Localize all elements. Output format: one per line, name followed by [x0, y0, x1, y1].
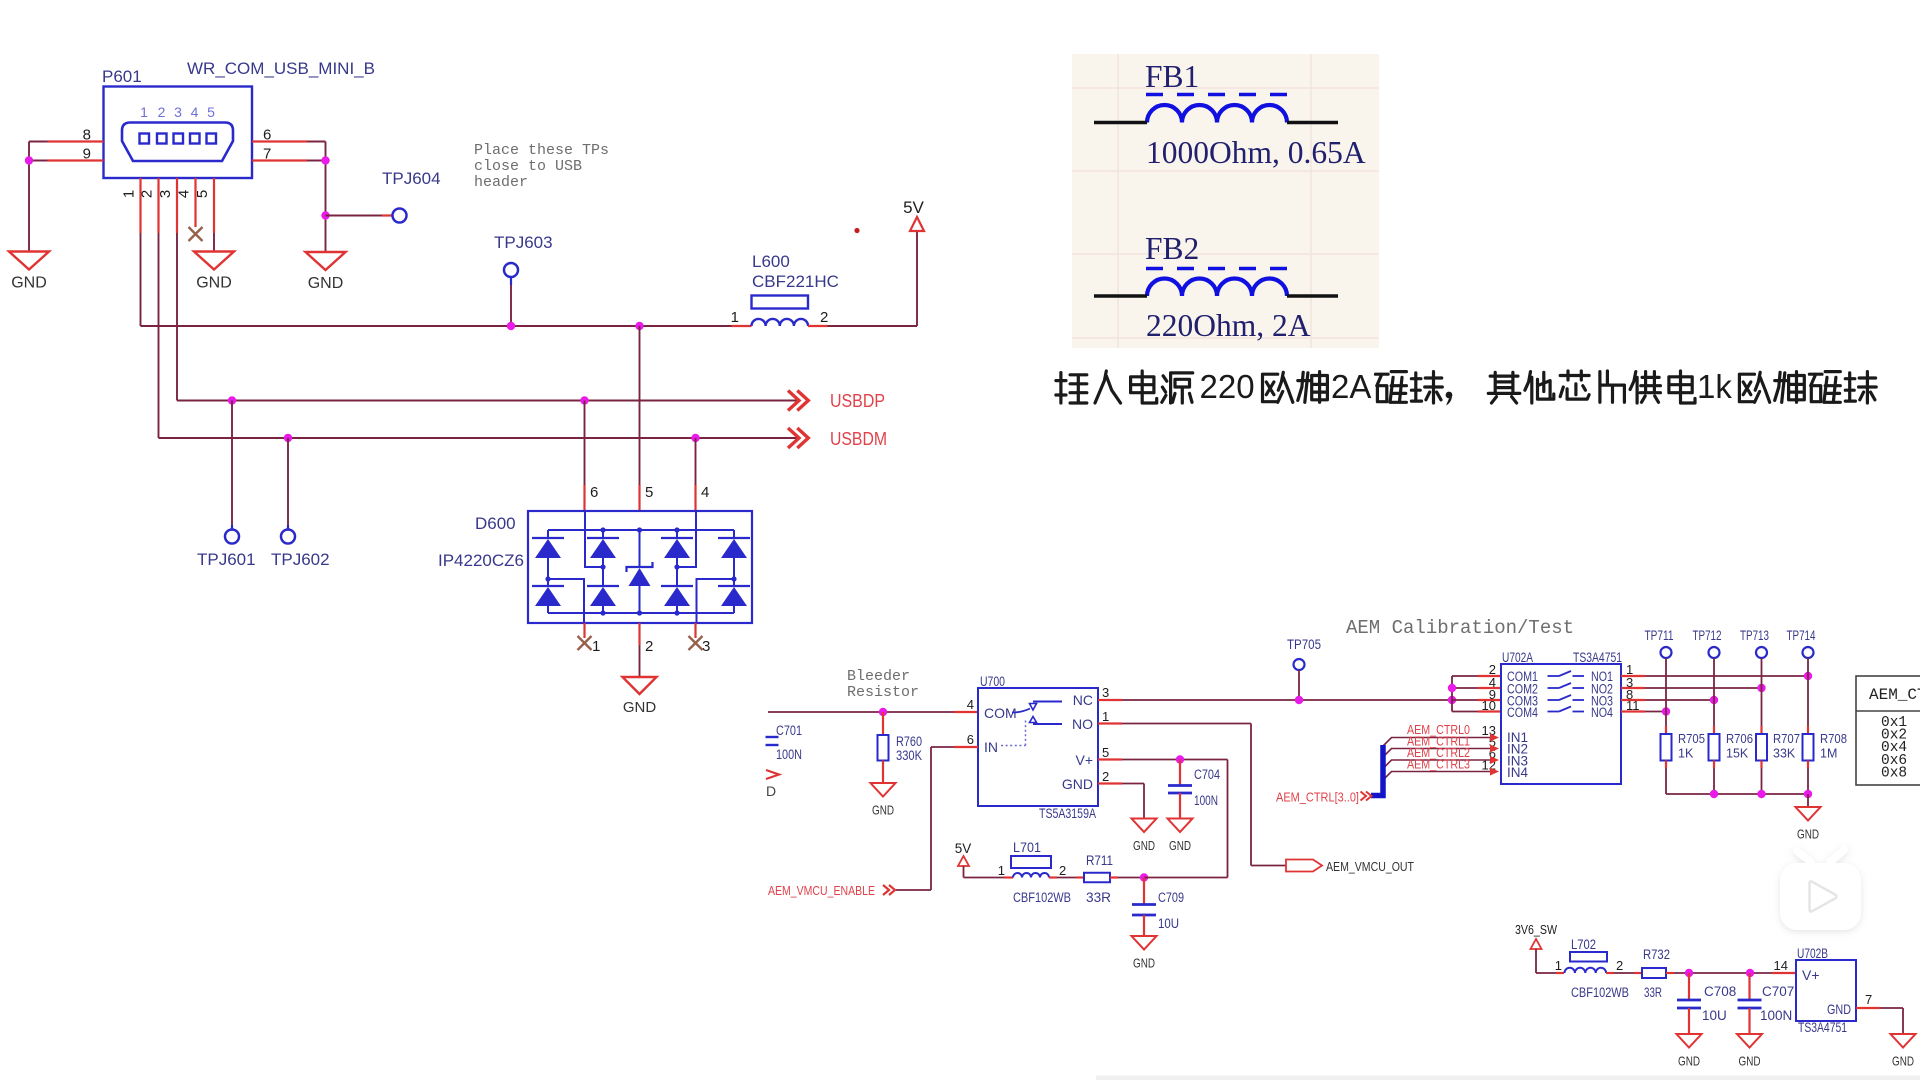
svg-text:100N: 100N: [1760, 1008, 1792, 1023]
svg-text:3: 3: [174, 104, 182, 120]
svg-text:10U: 10U: [1702, 1008, 1727, 1023]
svg-text:GND: GND: [11, 275, 47, 292]
svg-text:AEM_CTRL: AEM_CTRL: [1869, 686, 1920, 704]
svg-text:14: 14: [1774, 958, 1788, 973]
svg-text:L701: L701: [1013, 840, 1041, 855]
svg-text:1: 1: [1555, 958, 1562, 973]
svg-text:R711: R711: [1086, 853, 1113, 868]
svg-text:4: 4: [701, 484, 709, 501]
svg-text:NO: NO: [1072, 716, 1093, 732]
svg-text:U702B: U702B: [1797, 946, 1828, 961]
svg-text:1: 1: [731, 309, 739, 326]
svg-text:IP4220CZ6: IP4220CZ6: [438, 551, 524, 570]
svg-text:D600: D600: [475, 514, 516, 533]
svg-text:9: 9: [83, 146, 91, 163]
svg-text:2: 2: [820, 309, 828, 326]
svg-text:1: 1: [121, 190, 138, 198]
svg-text:C701: C701: [776, 723, 802, 738]
svg-text:TPJ604: TPJ604: [382, 169, 441, 188]
svg-text:100N: 100N: [776, 747, 802, 762]
svg-text:33R: 33R: [1086, 890, 1111, 905]
svg-text:TP711: TP711: [1645, 628, 1674, 643]
svg-text:330K: 330K: [896, 748, 922, 763]
svg-text:P601: P601: [102, 67, 142, 86]
svg-text:IN: IN: [984, 739, 998, 755]
svg-text:GND: GND: [1827, 1001, 1851, 1017]
svg-text:TPJ602: TPJ602: [271, 550, 330, 569]
svg-text:R732: R732: [1643, 947, 1670, 962]
svg-text:R760: R760: [896, 734, 922, 749]
svg-text:TS5A3159A: TS5A3159A: [1039, 806, 1096, 821]
svg-text:4: 4: [967, 697, 974, 712]
svg-text:L600: L600: [752, 252, 790, 271]
svg-text:C709: C709: [1158, 890, 1184, 905]
svg-text:CBF102WB: CBF102WB: [1571, 985, 1629, 1000]
svg-text:2: 2: [1102, 769, 1109, 784]
svg-text:4: 4: [191, 104, 199, 120]
svg-text:33R: 33R: [1644, 985, 1662, 1000]
svg-text:U700: U700: [980, 674, 1005, 689]
svg-text:GND: GND: [1892, 1054, 1914, 1069]
svg-text:GND: GND: [623, 699, 657, 716]
svg-text:FB1: FB1: [1145, 59, 1199, 94]
svg-text:Resistor: Resistor: [847, 684, 919, 701]
svg-text:3: 3: [157, 190, 174, 198]
svg-text:WR_COM_USB_MINI_B: WR_COM_USB_MINI_B: [187, 59, 375, 78]
svg-text:CBF102WB: CBF102WB: [1013, 890, 1071, 905]
svg-text:C704: C704: [1194, 767, 1220, 782]
svg-text:TS3A4751: TS3A4751: [1798, 1020, 1847, 1035]
svg-text:GND: GND: [1133, 956, 1155, 971]
svg-text:2: 2: [645, 638, 653, 655]
svg-text:AEM_CTRL[3..0]: AEM_CTRL[3..0]: [1276, 790, 1359, 805]
svg-text:6: 6: [967, 732, 974, 747]
svg-text:Bleeder: Bleeder: [847, 668, 910, 685]
svg-text:AEM_VMCU_ENABLE: AEM_VMCU_ENABLE: [768, 883, 875, 898]
svg-text:V+: V+: [1075, 752, 1093, 768]
svg-text:GND: GND: [196, 275, 232, 292]
svg-text:R708: R708: [1820, 732, 1847, 746]
svg-text:NO4: NO4: [1591, 705, 1613, 720]
svg-text:5: 5: [645, 484, 653, 501]
svg-text:TP713: TP713: [1740, 628, 1769, 643]
svg-text:header: header: [474, 174, 528, 191]
svg-text:TP714: TP714: [1787, 628, 1816, 643]
svg-text:GND: GND: [1133, 838, 1155, 853]
svg-text:C707: C707: [1762, 984, 1794, 999]
svg-text:TP705: TP705: [1287, 637, 1321, 652]
svg-text:0x8: 0x8: [1881, 765, 1907, 781]
svg-text:1000Ohm, 0.65A: 1000Ohm, 0.65A: [1146, 135, 1366, 170]
svg-text:6: 6: [590, 484, 598, 501]
svg-text:GND: GND: [308, 275, 344, 292]
svg-text:USBDM: USBDM: [830, 429, 887, 449]
svg-text:3: 3: [702, 638, 710, 655]
svg-text:USBDP: USBDP: [830, 391, 885, 411]
svg-text:1: 1: [592, 638, 600, 655]
svg-text:2: 2: [158, 104, 166, 120]
svg-text:5: 5: [207, 104, 215, 120]
svg-text:7: 7: [1865, 992, 1872, 1007]
svg-text:COM: COM: [984, 705, 1017, 721]
svg-text:220Ohm, 2A: 220Ohm, 2A: [1146, 308, 1311, 343]
svg-text:10: 10: [1482, 698, 1496, 713]
svg-text:3: 3: [1102, 685, 1109, 700]
svg-text:15K: 15K: [1726, 747, 1749, 761]
svg-text:2: 2: [139, 190, 156, 198]
svg-text:2: 2: [1616, 958, 1623, 973]
svg-text:TPJ601: TPJ601: [197, 550, 256, 569]
svg-text:3V6_SW: 3V6_SW: [1515, 922, 1558, 937]
svg-text:4: 4: [176, 190, 193, 198]
svg-text:33K: 33K: [1773, 747, 1796, 761]
svg-text:1K: 1K: [1678, 747, 1694, 761]
svg-text:2A: 2A: [1331, 368, 1371, 405]
svg-text:NC: NC: [1073, 692, 1093, 708]
svg-text:AEM_CTRL3: AEM_CTRL3: [1407, 757, 1470, 772]
svg-text:GND: GND: [1169, 838, 1191, 853]
svg-text:AEM_VMCU_OUT: AEM_VMCU_OUT: [1326, 859, 1414, 874]
svg-text:CBF221HC: CBF221HC: [752, 272, 839, 291]
svg-text:1: 1: [140, 104, 148, 120]
svg-text:GND: GND: [1739, 1054, 1761, 1069]
svg-text:GND: GND: [1062, 776, 1093, 792]
svg-text:GND: GND: [1797, 827, 1819, 842]
svg-text:6: 6: [263, 127, 271, 144]
svg-text:5: 5: [194, 190, 211, 198]
svg-text:220: 220: [1200, 368, 1255, 405]
svg-text:2: 2: [1059, 863, 1066, 878]
svg-text:5V: 5V: [955, 841, 972, 856]
svg-text:TS3A4751: TS3A4751: [1573, 650, 1622, 665]
svg-text:AEM Calibration/Test: AEM Calibration/Test: [1346, 617, 1574, 639]
svg-text:GND: GND: [1678, 1054, 1700, 1069]
svg-text:IN4: IN4: [1507, 765, 1529, 780]
svg-text:TPJ603: TPJ603: [494, 233, 553, 252]
svg-text:1M: 1M: [1820, 747, 1837, 761]
svg-text:L702: L702: [1571, 937, 1596, 952]
svg-text:close to USB: close to USB: [474, 158, 582, 175]
svg-text:1: 1: [998, 863, 1005, 878]
svg-text:GND: GND: [872, 803, 894, 818]
svg-text:1: 1: [1102, 709, 1109, 724]
svg-text:FB2: FB2: [1145, 231, 1199, 266]
svg-text:5V: 5V: [903, 198, 924, 217]
svg-text:C708: C708: [1704, 984, 1736, 999]
svg-text:V+: V+: [1802, 967, 1820, 983]
svg-text:1k: 1k: [1697, 368, 1732, 405]
svg-text:D: D: [766, 783, 776, 799]
svg-text:TP712: TP712: [1693, 628, 1722, 643]
svg-text:U702A: U702A: [1502, 650, 1533, 665]
svg-text:COM4: COM4: [1507, 705, 1538, 720]
svg-text:100N: 100N: [1194, 793, 1218, 808]
svg-text:5: 5: [1102, 745, 1109, 760]
svg-text:Place these TPs: Place these TPs: [474, 142, 609, 159]
svg-text:7: 7: [263, 146, 271, 163]
svg-text:R707: R707: [1773, 732, 1800, 746]
svg-text:R705: R705: [1678, 732, 1705, 746]
svg-text:10U: 10U: [1158, 916, 1179, 931]
svg-text:R706: R706: [1726, 732, 1753, 746]
svg-text:8: 8: [83, 127, 91, 144]
